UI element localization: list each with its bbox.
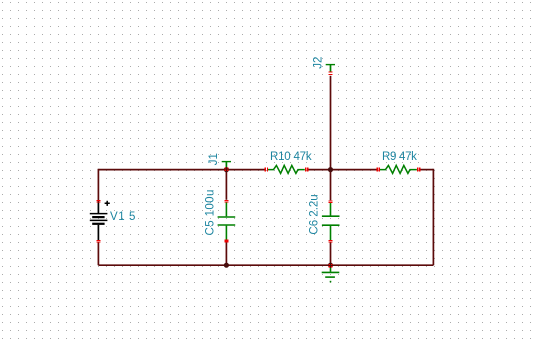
pin marks R9 right (417, 168, 420, 172)
pin marks C5 bottom (224, 240, 228, 243)
jumper J2 (326, 65, 335, 72)
pin marks R10 left (265, 168, 268, 172)
wire: middle rail left segment (top-left corner to R10 left pin) (98, 169, 264, 171)
wire: left vertical below battery (97, 242, 99, 266)
junction dot at C5 / bottom rail (224, 263, 229, 268)
pin marks C6 bottom (328, 240, 332, 243)
wire: bottom rail (98, 264, 433, 266)
wire: right vertical (432, 169, 434, 265)
pin marks ground pin (on junction) (329, 264, 333, 268)
svg-text:J1: J1 (208, 153, 220, 165)
wire: C5 top lead wire from J1 junction (225, 170, 227, 200)
pin marks C6 top (328, 200, 332, 203)
wire: C6 bottom lead wire to bottom rail (330, 243, 332, 266)
svg-text:R9 47k: R9 47k (382, 151, 417, 163)
resistor R9 (380, 165, 417, 173)
wire: middle rail between R10 and R9 (308, 169, 377, 171)
svg-text:C6 2.2u: C6 2.2u (309, 194, 321, 234)
pin marks R9 left (377, 168, 380, 172)
battery V1 (90, 201, 110, 241)
svg-text:V1 5: V1 5 (110, 211, 136, 223)
capacitor C5 (218, 202, 236, 241)
svg-text:C5 100u: C5 100u (205, 189, 217, 235)
pin marks J2 bottom (328, 72, 332, 75)
pin marks C5 top (224, 200, 228, 203)
capacitor C6 (322, 203, 340, 240)
jumper J1 (222, 162, 231, 168)
svg-text:J2: J2 (313, 57, 325, 69)
wire: left vertical above battery (97, 169, 99, 201)
ground (322, 265, 340, 281)
resistor R10 (268, 165, 305, 173)
wire: middle rail right of R9 to top-right corner (420, 169, 433, 171)
pin marks J1 bottom (on junction) (225, 167, 229, 171)
junction dot at J1 / middle rail (224, 167, 229, 172)
wire: C5 bottom lead wire to bottom rail (225, 242, 227, 265)
junction dot at J2 wire / middle rail (328, 167, 333, 172)
svg-text:R10 47k: R10 47k (270, 151, 312, 163)
pin marks battery top (96, 200, 100, 203)
wire: J2 vertical down through middle rail to C6 top pin (330, 76, 332, 201)
pin marks R10 right (305, 168, 308, 172)
junction dot at C6 / bottom rail / ground (328, 263, 333, 268)
pin marks battery bottom (96, 240, 100, 243)
